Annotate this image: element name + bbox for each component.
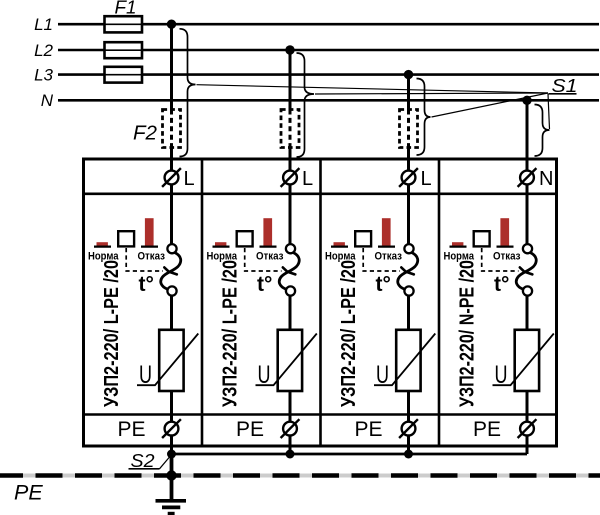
- svg-text:U: U: [258, 361, 271, 389]
- wire U3 varistor to PE terminal: [407, 391, 410, 421]
- leader S1 to brace 4: [548, 94, 550, 129]
- thermal disconnect U2: [279, 244, 299, 296]
- svg-text:N: N: [539, 168, 553, 190]
- svg-text:t°: t°: [494, 273, 509, 296]
- indicator U2 Отказ bar: [260, 218, 277, 246]
- junction node L1 tap: [167, 20, 176, 29]
- wire U1 varistor to PE terminal: [170, 391, 173, 421]
- svg-text:УЗП2-220/ N-PE /20: УЗП2-220/ N-PE /20: [457, 260, 479, 407]
- indicator U1 Отказ bar: [141, 218, 158, 246]
- wire U1 indicator dashed link: [126, 248, 163, 271]
- indicator U4 Отказ bar: [497, 218, 514, 246]
- wire N drop to module 4 terminal: [526, 100, 529, 170]
- module block outer box: [84, 159, 557, 446]
- svg-text:PE: PE: [236, 418, 264, 441]
- wire U4 varistor to PE terminal: [526, 391, 529, 421]
- module U3 input terminal circle: [399, 168, 418, 187]
- indicator U4 Норма bar: [450, 242, 467, 246]
- fuse F1.3: [105, 67, 143, 83]
- svg-text:N: N: [41, 91, 54, 110]
- junction node L2 tap: [285, 45, 294, 54]
- brace S1 contact group 1: [180, 29, 196, 157]
- fuse F1.1: [105, 16, 143, 32]
- wire U3 terminal to thermal disconnect: [407, 185, 410, 244]
- svg-text:t°: t°: [139, 273, 154, 296]
- wire U2 PE terminal to PE bus: [289, 436, 292, 454]
- svg-text:L: L: [421, 168, 432, 190]
- junction node L3 tap: [404, 70, 413, 79]
- wire U4 PE terminal to PE bus: [526, 436, 529, 454]
- wire U2 disconnect to varistor: [289, 296, 292, 330]
- wire PE earthing conductor (gray core): [0, 474, 600, 478]
- svg-text:F2: F2: [133, 123, 157, 145]
- wire PE bus to earth conductor: [170, 454, 174, 499]
- wire U4 terminal to thermal disconnect: [526, 185, 529, 244]
- svg-text:S1: S1: [552, 76, 578, 96]
- thermal disconnect U1: [161, 244, 181, 296]
- wire L2 bus: [58, 49, 599, 52]
- thermal disconnect U3: [398, 244, 418, 296]
- wire U3 disconnect to varistor: [407, 296, 410, 330]
- wire F2 internal (dashed) 2: [289, 110, 292, 148]
- module U1 input terminal circle: [162, 168, 181, 187]
- wire PE earthing conductor (dashed): [0, 473, 600, 478]
- wire U4 indicator dashed link: [482, 248, 519, 271]
- fuse-disconnector F2.1: [163, 110, 181, 148]
- svg-text:t°: t°: [257, 273, 272, 296]
- junction PE bus node 3: [404, 450, 413, 459]
- indicator U4 window: [474, 231, 490, 246]
- indicator U3 window: [355, 231, 371, 246]
- svg-text:Отказ: Отказ: [375, 250, 403, 262]
- svg-text:L1: L1: [34, 15, 53, 34]
- junction node N tap: [522, 96, 531, 105]
- varistor U3 body: [396, 330, 420, 391]
- svg-text:F1: F1: [115, 0, 137, 18]
- junction PE conductor node: [166, 470, 176, 480]
- fuse-disconnector F2.2: [281, 110, 299, 148]
- indicator U2 Норма bar: [213, 242, 230, 246]
- wire F2 internal (dashed) 3: [407, 110, 410, 148]
- junction PE bus node 2: [286, 450, 295, 459]
- wire F2 internal (dashed) 1: [170, 110, 173, 148]
- leader S1 to brace 2: [315, 93, 548, 94]
- wire F2 to module terminal 2: [289, 148, 292, 171]
- wire U4 disconnect to varistor: [526, 296, 529, 330]
- module U4 PE terminal circle: [518, 419, 537, 438]
- wire U2 terminal to thermal disconnect: [289, 185, 292, 244]
- wire F2 to module terminal 3: [407, 148, 410, 171]
- wire L1 drop to F2: [170, 24, 173, 109]
- module block top divider: [84, 193, 557, 196]
- module U1 PE terminal circle: [162, 419, 181, 438]
- module block bottom divider: [84, 413, 557, 416]
- svg-text:L: L: [302, 168, 313, 190]
- svg-text:U: U: [495, 361, 508, 389]
- module U3 PE terminal circle: [399, 419, 418, 438]
- ground: [156, 501, 187, 514]
- wire F2 to module terminal 1: [170, 148, 173, 171]
- varistor U1 symbol stroke: [137, 334, 198, 386]
- varistor U4 body: [515, 330, 539, 391]
- module U4 input terminal circle: [518, 168, 537, 187]
- leader S1 to brace 1: [197, 85, 549, 93]
- junction PE bus node 1: [167, 450, 176, 459]
- wire U1 disconnect to varistor: [170, 296, 173, 330]
- svg-text:УЗП2-220/ L-PE /20: УЗП2-220/ L-PE /20: [220, 260, 242, 407]
- svg-text:Отказ: Отказ: [256, 250, 284, 262]
- svg-text:L: L: [184, 168, 195, 190]
- wire L3 bus: [58, 73, 599, 76]
- wire L3 drop to F2: [407, 75, 410, 110]
- svg-text:U: U: [139, 361, 152, 389]
- module U2 PE terminal circle: [281, 419, 300, 438]
- leader S1 to brace 3: [432, 93, 549, 117]
- wire U2 indicator dashed link: [245, 248, 282, 271]
- svg-text:УЗП2-220/ L-PE /20: УЗП2-220/ L-PE /20: [338, 260, 360, 407]
- wire N bus: [58, 99, 599, 102]
- svg-text:PE: PE: [473, 418, 501, 441]
- indicator U1 Норма bar: [94, 242, 111, 246]
- fuse-disconnector F2.3: [400, 110, 418, 148]
- module separator 1: [201, 159, 204, 446]
- svg-text:Отказ: Отказ: [138, 250, 166, 262]
- wire U1 terminal to thermal disconnect: [170, 185, 173, 244]
- module separator 2: [319, 159, 322, 446]
- switch S2 label: [129, 451, 160, 471]
- wire PE bus: [172, 453, 528, 456]
- brace S1 contact group 2: [297, 53, 315, 157]
- wire U3 indicator dashed link: [363, 248, 400, 271]
- brace S1 contact group 3: [417, 79, 431, 156]
- varistor U4 symbol stroke: [493, 334, 554, 386]
- fuse F1.2: [105, 42, 143, 58]
- svg-text:PE: PE: [118, 418, 146, 441]
- svg-text:L3: L3: [34, 65, 53, 84]
- module U2 input terminal circle: [281, 168, 300, 187]
- indicator U2 window: [237, 231, 253, 246]
- svg-text:PE: PE: [14, 481, 43, 505]
- wire L2 drop to F2: [289, 50, 292, 110]
- wire U1 PE terminal to PE bus: [170, 436, 173, 454]
- wire U2 varistor to PE terminal: [289, 391, 292, 421]
- varistor U2 body: [278, 330, 302, 391]
- brace S1 contact group 4: [535, 105, 550, 157]
- leader S2 to junction: [160, 457, 170, 469]
- module separator 3: [438, 159, 441, 446]
- svg-text:L2: L2: [34, 41, 53, 60]
- svg-text:U: U: [376, 361, 389, 389]
- varistor U1 body: [159, 330, 183, 391]
- thermal disconnect U4: [516, 244, 536, 296]
- varistor U2 symbol stroke: [256, 334, 317, 386]
- wire L1 bus: [58, 23, 599, 26]
- svg-text:УЗП2-220/ L-PE /20: УЗП2-220/ L-PE /20: [101, 260, 123, 407]
- svg-text:PE: PE: [355, 418, 383, 441]
- svg-text:Отказ: Отказ: [493, 250, 521, 262]
- indicator U1 window: [118, 231, 134, 246]
- indicator U3 Норма bar: [331, 242, 348, 246]
- svg-text:t°: t°: [376, 273, 391, 296]
- wire U3 PE terminal to PE bus: [407, 436, 410, 454]
- indicator U3 Отказ bar: [378, 218, 395, 246]
- varistor U3 symbol stroke: [374, 334, 435, 386]
